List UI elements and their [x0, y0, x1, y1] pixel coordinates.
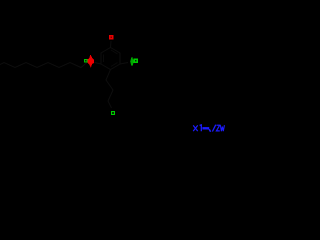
top O atom (red) [109, 35, 114, 40]
left alkyl chain [0, 63, 87, 68]
bond ring to left O [95, 63, 102, 65]
bond ring to top O [110, 41, 113, 48]
bottom Cl square [111, 111, 115, 115]
bond ring to right Cl [120, 63, 128, 65]
left O atom (red diamond/cross) [88, 55, 94, 68]
blue watermark bottom right [193, 125, 224, 132]
ring inner double bonds [104, 50, 118, 67]
chain down to bottom Cl [106, 70, 113, 109]
right Cl square [134, 59, 138, 63]
benzene ring [101, 48, 120, 70]
left green square [84, 59, 88, 63]
right Cl diamond [130, 57, 134, 67]
